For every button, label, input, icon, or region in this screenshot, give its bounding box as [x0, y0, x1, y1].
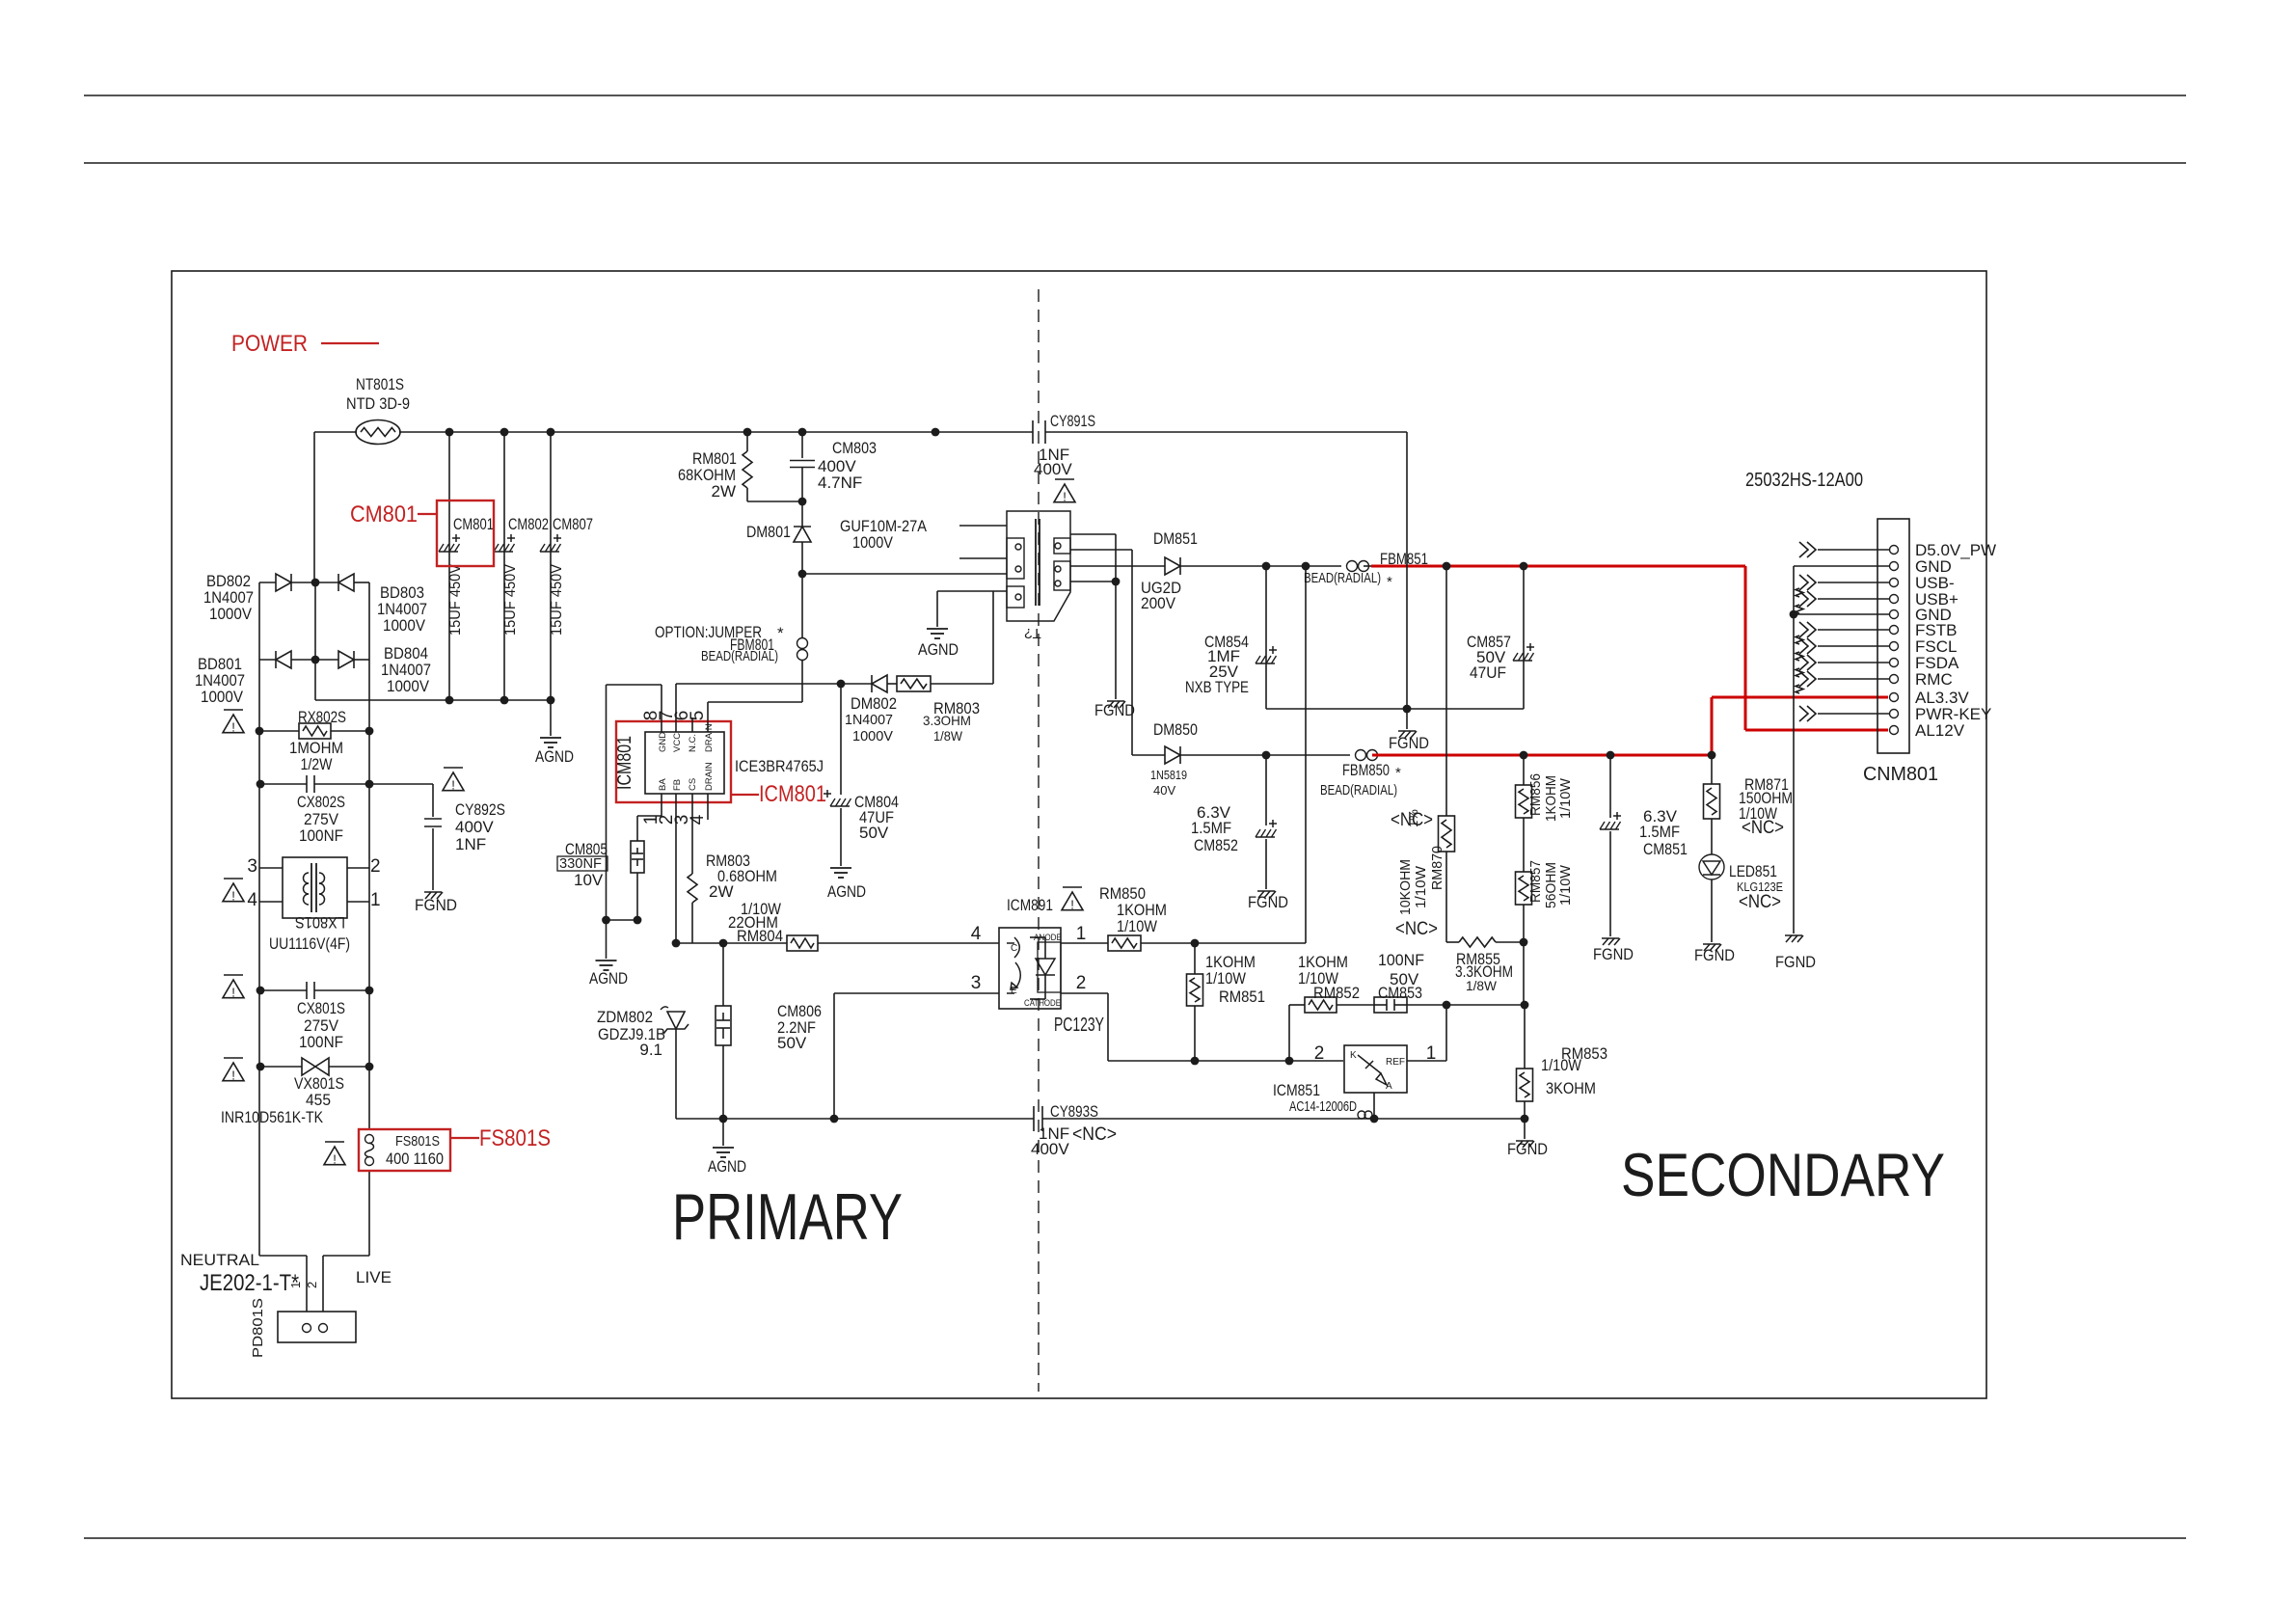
- svg-text:T?: T?: [1024, 625, 1041, 641]
- svg-text:400V: 400V: [1034, 460, 1072, 478]
- svg-text:RM851: RM851: [1219, 988, 1265, 1006]
- svg-text:CM852: CM852: [1194, 836, 1238, 854]
- svg-text:1N4007: 1N4007: [845, 712, 893, 728]
- svg-text:40V: 40V: [1153, 783, 1175, 798]
- svg-text:FGND: FGND: [1593, 945, 1634, 963]
- svg-text:CM851: CM851: [1643, 840, 1688, 858]
- svg-text:2: 2: [1314, 1043, 1325, 1064]
- svg-text:ICM891: ICM891: [1007, 896, 1053, 914]
- svg-text:1000V: 1000V: [209, 605, 253, 623]
- svg-text:!: !: [1070, 898, 1074, 912]
- svg-text:1/10W: 1/10W: [1541, 1056, 1581, 1074]
- svg-text:400V: 400V: [455, 818, 494, 836]
- svg-text:10KOHM: 10KOHM: [1397, 859, 1414, 915]
- svg-text:AL12V: AL12V: [1915, 721, 1965, 740]
- svg-text:UU1116V(4F): UU1116V(4F): [269, 934, 350, 953]
- svg-text:!: !: [451, 778, 455, 793]
- svg-text:NT801S: NT801S: [356, 375, 404, 393]
- svg-text:RMC: RMC: [1915, 670, 1953, 689]
- svg-text:2: 2: [305, 1282, 319, 1288]
- svg-text:FBM850: FBM850: [1342, 761, 1390, 779]
- svg-text:4.7NF: 4.7NF: [818, 474, 862, 492]
- svg-text:DRAIN: DRAIN: [704, 762, 715, 791]
- svg-text:VCC: VCC: [672, 733, 683, 752]
- svg-text:AGND: AGND: [589, 969, 628, 988]
- svg-text:3: 3: [971, 973, 982, 993]
- svg-text:25032HS-12A00: 25032HS-12A00: [1745, 470, 1863, 491]
- svg-text:CNM801: CNM801: [1863, 764, 1938, 785]
- svg-text:FGND: FGND: [1775, 953, 1816, 971]
- svg-text:FGND: FGND: [1248, 893, 1288, 911]
- svg-text:1000V: 1000V: [201, 688, 244, 706]
- svg-text:100NF: 100NF: [299, 1033, 343, 1051]
- svg-text:DRAIN: DRAIN: [704, 723, 715, 752]
- svg-text:!: !: [231, 1069, 235, 1083]
- svg-text:AGND: AGND: [535, 747, 574, 766]
- svg-text:ICE3BR4765J: ICE3BR4765J: [735, 757, 824, 775]
- svg-text:CY892S: CY892S: [455, 800, 505, 819]
- svg-text:15UF 450V: 15UF 450V: [502, 564, 519, 636]
- svg-text:330NF: 330NF: [559, 855, 602, 872]
- svg-text:10V: 10V: [574, 871, 604, 889]
- svg-text:*: *: [1387, 574, 1392, 590]
- svg-text:CM801: CM801: [453, 515, 494, 533]
- svg-text:CATHODE: CATHODE: [1024, 998, 1061, 1009]
- svg-text:N.C.: N.C.: [688, 734, 698, 752]
- svg-text:POWER: POWER: [231, 331, 308, 357]
- svg-text:NEUTRAL: NEUTRAL: [180, 1251, 259, 1269]
- svg-text:15UF 450V: 15UF 450V: [549, 564, 565, 636]
- svg-text:BEAD(RADIAL): BEAD(RADIAL): [701, 648, 778, 664]
- svg-text:RM852: RM852: [1313, 984, 1360, 1002]
- svg-text:CM853: CM853: [1378, 984, 1422, 1002]
- svg-text:CM801: CM801: [350, 501, 418, 528]
- svg-text:CS: CS: [688, 778, 698, 791]
- svg-text:1/8W: 1/8W: [933, 728, 963, 744]
- svg-text:1: 1: [370, 890, 381, 910]
- svg-text:FB: FB: [672, 779, 683, 791]
- svg-text:1/10W: 1/10W: [1413, 865, 1429, 908]
- svg-text:NTD 3D-9: NTD 3D-9: [346, 394, 410, 413]
- svg-text:1: 1: [288, 1282, 303, 1288]
- svg-text:CM807: CM807: [553, 515, 593, 533]
- svg-text:2W: 2W: [709, 882, 734, 901]
- svg-text:NXB TYPE: NXB TYPE: [1185, 678, 1249, 696]
- svg-text:<NC>: <NC>: [1395, 919, 1438, 939]
- svg-text:1/10W: 1/10W: [1557, 777, 1574, 819]
- svg-text:1NF: 1NF: [455, 835, 486, 853]
- svg-text:DM801: DM801: [746, 523, 791, 541]
- svg-text:400 1160: 400 1160: [386, 1150, 444, 1168]
- svg-text:!: !: [231, 720, 235, 735]
- svg-text:PRIMARY: PRIMARY: [672, 1180, 903, 1254]
- svg-text:100NF: 100NF: [299, 826, 343, 845]
- svg-text:DM851: DM851: [1153, 529, 1198, 548]
- svg-text:!: !: [1063, 490, 1067, 504]
- svg-text:3: 3: [247, 856, 257, 877]
- svg-text:CY891S: CY891S: [1050, 412, 1095, 430]
- svg-text:AGND: AGND: [708, 1157, 746, 1176]
- svg-text:FGND: FGND: [1694, 946, 1735, 964]
- svg-text:DM850: DM850: [1153, 720, 1198, 739]
- svg-text:AGND: AGND: [918, 640, 959, 659]
- svg-text:400V: 400V: [1031, 1140, 1069, 1158]
- svg-text:5: 5: [688, 711, 708, 721]
- svg-text:1/10W: 1/10W: [1557, 864, 1574, 906]
- svg-text:2: 2: [1076, 973, 1087, 993]
- svg-text:ICM851: ICM851: [1273, 1081, 1320, 1099]
- svg-text:*: *: [777, 624, 784, 642]
- svg-text:!: !: [333, 1152, 337, 1167]
- svg-text:BA: BA: [658, 778, 668, 791]
- svg-text:LX801S: LX801S: [295, 913, 345, 932]
- svg-text:RX802S: RX802S: [298, 708, 346, 726]
- svg-text:FBM851: FBM851: [1380, 550, 1428, 568]
- svg-text:50V: 50V: [777, 1034, 807, 1052]
- svg-text:22OHM: 22OHM: [728, 913, 778, 932]
- svg-text:FS801S: FS801S: [395, 1133, 440, 1150]
- svg-text:BEAD(RADIAL): BEAD(RADIAL): [1304, 570, 1381, 586]
- svg-text:<NC>: <NC>: [1739, 892, 1781, 912]
- svg-text:ANODE: ANODE: [1034, 933, 1062, 943]
- svg-text:CY893S: CY893S: [1050, 1102, 1098, 1121]
- svg-text:CX802S: CX802S: [297, 793, 345, 811]
- svg-text:1N5819: 1N5819: [1150, 768, 1187, 782]
- svg-text:CM802: CM802: [508, 515, 549, 533]
- svg-text:FGND: FGND: [1507, 1140, 1548, 1158]
- svg-text:1/10W: 1/10W: [1117, 917, 1157, 935]
- svg-text:BEAD(RADIAL): BEAD(RADIAL): [1320, 782, 1397, 798]
- svg-text:4: 4: [971, 924, 982, 944]
- svg-text:RM856: RM856: [1527, 773, 1544, 816]
- svg-text:FGND: FGND: [1094, 701, 1135, 719]
- svg-text:*: *: [1395, 765, 1401, 781]
- svg-text:CM803: CM803: [832, 439, 877, 457]
- svg-text:15UF 450V: 15UF 450V: [447, 564, 464, 636]
- svg-text:1000V: 1000V: [852, 728, 893, 744]
- svg-text:455: 455: [306, 1091, 331, 1109]
- svg-text:GND: GND: [658, 732, 668, 752]
- svg-text:FS801S: FS801S: [479, 1125, 551, 1151]
- svg-text:FGND: FGND: [1389, 734, 1429, 752]
- svg-text:47UF: 47UF: [1470, 663, 1506, 682]
- svg-text:1.5MF: 1.5MF: [1639, 823, 1680, 841]
- svg-text:1%: 1%: [1406, 809, 1420, 827]
- svg-text:PD801S: PD801S: [250, 1298, 266, 1358]
- svg-text:1: 1: [1076, 924, 1087, 944]
- svg-text:1000V: 1000V: [383, 616, 426, 635]
- svg-text:INR10D561K-TK: INR10D561K-TK: [221, 1108, 324, 1126]
- svg-text:DM802: DM802: [851, 694, 897, 713]
- svg-text:200V: 200V: [1141, 594, 1176, 612]
- svg-text:1/8W: 1/8W: [1466, 978, 1498, 993]
- svg-text:1.5MF: 1.5MF: [1191, 819, 1231, 837]
- svg-text:!: !: [231, 889, 235, 904]
- svg-text:2: 2: [370, 856, 381, 877]
- svg-text:LED851: LED851: [1729, 862, 1777, 880]
- svg-text:ICM801: ICM801: [759, 781, 826, 807]
- svg-text:2W: 2W: [712, 482, 737, 501]
- svg-text:AGND: AGND: [827, 882, 866, 901]
- svg-text:1000V: 1000V: [852, 533, 894, 552]
- svg-text:1/2W: 1/2W: [301, 755, 333, 773]
- svg-text:!: !: [231, 986, 235, 1000]
- svg-text:1/10W: 1/10W: [1205, 969, 1246, 988]
- svg-text:C: C: [1011, 943, 1017, 954]
- svg-text:K: K: [1350, 1050, 1357, 1061]
- svg-text:RM857: RM857: [1527, 860, 1544, 903]
- svg-text:LIVE: LIVE: [356, 1268, 392, 1286]
- svg-text:RM870: RM870: [1429, 846, 1445, 890]
- svg-text:E: E: [1011, 986, 1017, 996]
- svg-text:50V: 50V: [859, 824, 889, 842]
- svg-text:REF: REF: [1386, 1057, 1405, 1068]
- svg-text:100NF: 100NF: [1378, 951, 1424, 969]
- svg-text:JE202-1-T*: JE202-1-T*: [200, 1270, 299, 1296]
- svg-text:A: A: [1386, 1081, 1392, 1092]
- svg-text:9.1: 9.1: [639, 1041, 662, 1059]
- svg-text:3.3OHM: 3.3OHM: [923, 713, 971, 728]
- svg-text:4: 4: [247, 890, 257, 910]
- svg-text:AC14-12006D: AC14-12006D: [1289, 1098, 1357, 1115]
- svg-text:1000V: 1000V: [387, 677, 430, 695]
- svg-text:ZDM802: ZDM802: [597, 1008, 653, 1026]
- svg-text:<NC>: <NC>: [1072, 1124, 1117, 1145]
- svg-text:<NC>: <NC>: [1742, 818, 1784, 838]
- svg-text:CX801S: CX801S: [297, 999, 345, 1017]
- svg-text:FGND: FGND: [415, 896, 457, 914]
- svg-text:PC123Y: PC123Y: [1054, 1015, 1104, 1036]
- svg-text:SECONDARY: SECONDARY: [1621, 1142, 1945, 1209]
- svg-text:ICM801: ICM801: [614, 736, 635, 790]
- svg-text:3KOHM: 3KOHM: [1546, 1079, 1596, 1097]
- svg-text:4: 4: [688, 814, 708, 825]
